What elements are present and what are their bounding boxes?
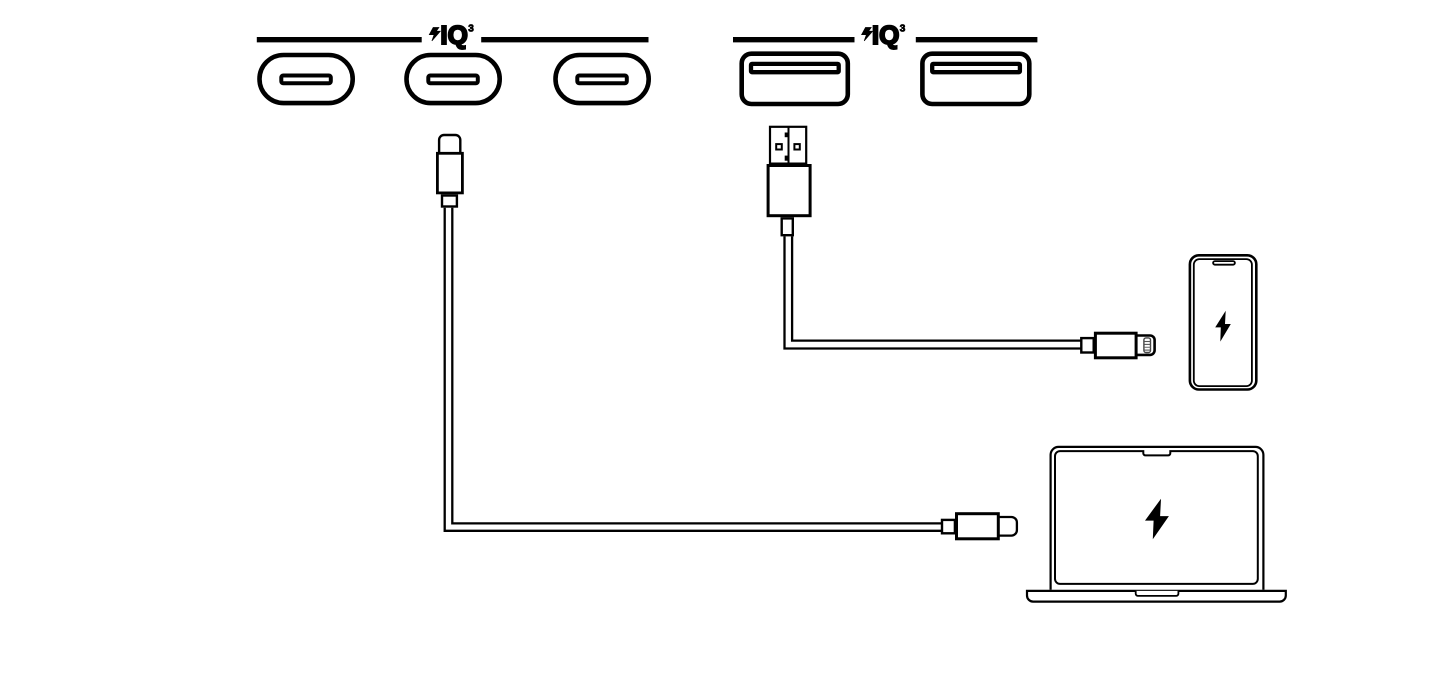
PowerIQ bolt icon (USB-C section)	[429, 28, 440, 41]
USB-C plug tip (horizontal, at laptop)	[999, 517, 1017, 536]
USB-A port 2 outline	[922, 54, 1029, 104]
laptop base notch	[1136, 591, 1179, 596]
USB-C port 3 outline	[556, 55, 649, 103]
USB-C port 2 slot	[428, 76, 478, 84]
phone charging bolt	[1215, 311, 1231, 342]
Lightning plug neck (horizontal)	[1081, 338, 1093, 352]
USB-C connector neck (vertical)	[442, 196, 457, 207]
USB-A connector hole left	[776, 144, 782, 149]
phone camera pill	[1213, 261, 1235, 265]
USB-A connector metal tip	[770, 127, 806, 164]
USB-A connector body	[768, 166, 810, 216]
PowerIQ bolt icon (USB-A section)	[862, 28, 873, 41]
USB-A connector neck	[782, 218, 793, 235]
PowerIQ label line left (USB-A section)	[733, 37, 855, 42]
USB-A port 2 slot	[932, 64, 1020, 72]
USB-C connector tip (vertical, below port 2)	[439, 135, 460, 153]
USB-A connector divider line	[788, 127, 790, 164]
USB-C port 1 outline	[260, 55, 353, 103]
Lightning plug body (horizontal)	[1095, 333, 1136, 358]
USB-A connector divider tab upper	[785, 133, 789, 138]
USB-C connector body (vertical)	[437, 153, 462, 193]
PowerIQ label line right (USB-A section)	[916, 37, 1038, 42]
laptop charging bolt	[1145, 499, 1169, 540]
PowerIQ superscript 3 (USB-C section)	[468, 24, 474, 35]
USB-A cable inner line (down then right to phone)	[792, 236, 1081, 340]
USB-A connector divider tab lower	[785, 156, 789, 161]
USB-C cable outer line (down then right to laptop)	[445, 208, 942, 531]
PowerIQ "IQ" text (USB-A section)	[872, 20, 899, 50]
USB-A port 1 outline	[742, 54, 848, 104]
USB-C port 2 outline	[407, 55, 500, 103]
svg-text:IQ: IQ	[872, 20, 899, 50]
USB-C plug neck (horizontal)	[942, 520, 955, 533]
PowerIQ label line left (USB-C section)	[257, 37, 422, 42]
laptop screen inner with camera notch	[1055, 451, 1258, 584]
USB-C port 1 slot	[281, 76, 331, 84]
Lightning plug tip (horizontal, at phone)	[1137, 336, 1155, 355]
phone inner screen	[1194, 259, 1252, 386]
USB-A connector hole right	[794, 144, 799, 149]
USB-A cable outer line (down then right to phone)	[785, 236, 1082, 348]
USB-A port 1 slot	[751, 64, 839, 72]
laptop screen outer	[1051, 447, 1264, 590]
PowerIQ "IQ" text (USB-C section)	[440, 20, 467, 50]
USB-C cable inner line (down then right to laptop)	[452, 208, 941, 524]
svg-text:3: 3	[468, 24, 474, 35]
phone outer body	[1190, 255, 1256, 389]
svg-text:3: 3	[900, 24, 906, 35]
PowerIQ label line right (USB-C section)	[481, 37, 648, 42]
laptop base	[1027, 591, 1286, 602]
USB-C port 3 slot	[577, 76, 627, 84]
svg-text:IQ: IQ	[440, 20, 467, 50]
Lightning plug contact pad	[1144, 338, 1151, 353]
USB-C plug body (horizontal)	[957, 514, 999, 539]
PowerIQ superscript 3 (USB-A section)	[900, 24, 906, 35]
